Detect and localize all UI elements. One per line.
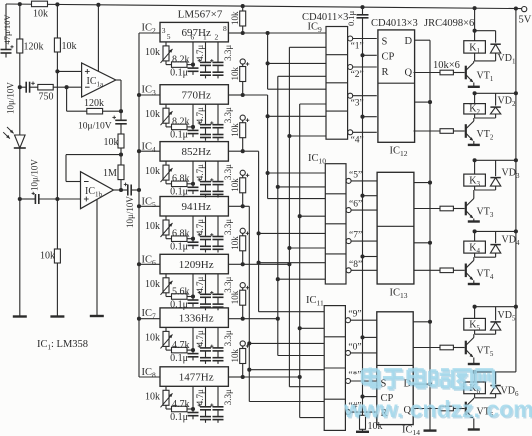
capacitor 3.3u pin2 IC5 — [217, 216, 219, 237]
wire output of IC2 — [228, 32, 242, 34]
wire to feedback node B — [120, 148, 122, 155]
svg-text:3.3μ: 3.3μ — [223, 330, 233, 346]
wire gate 1 output — [353, 38, 377, 40]
svg-text:6.8k: 6.8k — [172, 174, 190, 185]
wire output of IC3 — [228, 94, 242, 96]
resistor 10k base VT3 — [414, 208, 441, 210]
wire pot to 8.2k — [165, 123, 167, 127]
wire output chain down — [120, 111, 122, 120]
wire pin6 IC2 — [192, 42, 194, 65]
svg-text:6: 6 — [191, 33, 195, 42]
svg-text:5.6k: 5.6k — [172, 286, 190, 297]
wire 941 to gate0 top input — [249, 342, 324, 344]
capacitor 10u/10V coupling to IC1a — [20, 86, 26, 88]
resistor 6.8k IC4 — [172, 181, 188, 187]
resistor 8.2k IC3 — [172, 124, 188, 129]
resistor 10k base VT6 — [414, 408, 441, 410]
terminal + pullup IC3 — [240, 59, 245, 64]
wire pin6 IC6 — [192, 274, 194, 297]
wire 750 to IC1a inverting input — [53, 86, 81, 88]
node rail-K1 feed — [473, 6, 477, 10]
diode VD3 flyback — [490, 178, 500, 187]
node 1477 output junction — [243, 376, 300, 378]
svg-text:3.3μ: 3.3μ — [223, 219, 233, 235]
potentiometer 10k IC2 — [165, 42, 167, 46]
node K1 feed — [473, 29, 477, 33]
svg-text:750: 750 — [39, 92, 54, 103]
wire input to IC7 — [139, 318, 160, 320]
wire 770 to gate6 top input — [268, 198, 326, 200]
svg-text:4.7μ: 4.7μ — [195, 164, 205, 180]
gate output bubble 4 — [348, 130, 353, 135]
capacitor 47u/10V input electrolytic — [1, 49, 12, 51]
diode VD6 flyback — [490, 386, 500, 394]
resistor 10k pullup IC7 — [242, 288, 244, 290]
capacitor 4.7u pin1 IC8 — [205, 386, 207, 407]
svg-text:10μ/10V: 10μ/10V — [6, 82, 16, 114]
wire CP bus — [362, 22, 364, 415]
capacitor 3.3u pin2 IC4 — [217, 161, 219, 182]
gate output bubble # — [346, 410, 351, 415]
resistor 120k feedback IC1a — [87, 108, 103, 114]
node rail-pullup IC2 — [241, 4, 245, 8]
wire 10k to ground — [362, 429, 364, 431]
wire K3 5V feed — [475, 159, 516, 161]
op-amp IC1b LM358 second stage — [81, 172, 114, 209]
svg-text:1209Hz: 1209Hz — [179, 259, 214, 271]
quad NAND IC11 CD4011 — [324, 306, 345, 431]
ground VT6 — [468, 428, 480, 430]
diode VD1 flyback — [490, 44, 500, 53]
node D chain tap — [428, 241, 432, 245]
svg-text:47μ/10V: 47μ/10V — [2, 14, 12, 45]
svg-text:6.8k: 6.8k — [172, 229, 190, 240]
relay K1 — [474, 31, 476, 41]
node bus IC4 — [137, 149, 141, 153]
wire input to IC2 — [139, 32, 160, 34]
svg-text:VT5: VT5 — [477, 346, 494, 359]
node K5 feed — [473, 305, 477, 309]
wire K6 5V feed — [475, 371, 516, 373]
wire 770 to gate4 top input — [268, 115, 326, 117]
wire output of IC6 — [228, 263, 242, 265]
wire input to IC3 — [139, 94, 160, 96]
wire 1M to IC1b output node — [120, 180, 122, 190]
svg-text:CD4013×3: CD4013×3 — [371, 18, 418, 29]
wire bias node to IC1a+ — [56, 52, 58, 71]
svg-text:120k: 120k — [84, 98, 104, 109]
wire pot to 4.7k — [165, 405, 167, 409]
transistor VT1 NPN — [465, 66, 467, 80]
tone decoder IC5 LM567 941Hz — [160, 197, 228, 217]
svg-text:VT3: VT3 — [477, 207, 494, 220]
capacitor 0.1u CP bus top — [362, 7, 364, 14]
gate output bubble 7 — [346, 239, 351, 244]
node rail-right bus — [514, 6, 518, 10]
capacitor 0.1u timing IC6 — [192, 297, 194, 301]
svg-text:IC12: IC12 — [390, 146, 408, 159]
potentiometer 10k IC5 — [165, 216, 167, 220]
svg-text:4.7μ: 4.7μ — [195, 330, 205, 346]
wire gate 2 output — [353, 66, 377, 68]
svg-text:“1”: “1” — [351, 42, 364, 52]
wire pot to 4.7k — [165, 346, 167, 350]
svg-text:770Hz: 770Hz — [182, 89, 211, 101]
transistor VT6 NPN — [465, 402, 467, 416]
svg-text:Q: Q — [405, 68, 413, 79]
wire pot to 8.2k — [165, 61, 167, 65]
wire 852 trunk — [243, 150, 259, 152]
node timing IC2 — [191, 63, 195, 67]
potentiometer 10k IC7 — [165, 327, 167, 331]
node CP bus tap — [360, 395, 364, 399]
wire pot to 6.8k — [165, 180, 167, 184]
quad NAND IC9 CD4011 — [326, 27, 348, 140]
resistor 750 input — [30, 86, 38, 88]
node IC1a- feedback junction — [65, 85, 69, 89]
svg-text:“6”: “6” — [349, 200, 362, 210]
svg-text:120k: 120k — [24, 42, 44, 53]
wire 770 trunk — [243, 94, 268, 96]
svg-text:10k: 10k — [62, 41, 77, 52]
node K2 feed rail — [514, 91, 518, 95]
terminal 5V supply — [522, 7, 527, 12]
node D chain tap — [428, 181, 432, 185]
wire photodiode to signal row — [19, 148, 21, 199]
svg-text:S: S — [382, 37, 388, 48]
svg-text:8.2k: 8.2k — [172, 54, 190, 65]
node 1336 to gate8 — [276, 277, 280, 281]
diode VD2 flyback — [490, 107, 500, 114]
node 697 to gate2 — [266, 61, 270, 65]
dual flip-flop IC13 CD4013 — [377, 172, 414, 284]
wire 697Hz output to gate 1 input — [243, 32, 326, 34]
node B IC1b feedback — [119, 153, 123, 157]
node CP bus tap — [360, 53, 364, 57]
wire VT6 emitter to ground — [473, 419, 475, 430]
resistor 4.7k IC8 — [172, 406, 188, 412]
svg-text:5: 5 — [167, 32, 171, 41]
svg-text:4.7μ: 4.7μ — [195, 45, 205, 61]
wire IC1b V- to ground — [96, 200, 98, 317]
wire output of IC5 — [228, 205, 242, 207]
wire input to IC8 — [139, 376, 160, 378]
tone decoder IC8 LM567 1477Hz — [160, 367, 228, 387]
capacitor 0.1u timing IC5 — [192, 239, 194, 243]
ground VT5 — [468, 363, 480, 365]
resistor 4.7k IC7 — [172, 347, 188, 353]
potentiometer 10k IC8 — [165, 386, 167, 390]
wire K4 bottom node — [474, 253, 476, 257]
capacitor 4.7u pin1 IC7 — [205, 327, 207, 348]
svg-text:CP: CP — [382, 52, 395, 63]
svg-text:“4”: “4” — [351, 135, 364, 145]
tone decoder IC2 LM567 697Hz — [160, 22, 228, 42]
dual flip-flop IC12 CD4013 — [378, 30, 415, 142]
wire gate # output — [351, 411, 377, 413]
wire 1209 to gate7 bottom input — [289, 247, 325, 249]
wire 1209 trunk — [288, 47, 290, 386]
wire IC1a feedback loop — [66, 87, 68, 111]
capacitor 4.7u pin1 IC5 — [205, 216, 207, 237]
wire photodiode line to ground — [19, 199, 21, 317]
transistor VT5 NPN — [465, 341, 467, 355]
wire VT2 emitter to ground — [473, 141, 475, 145]
wire 1477 to gate-hash bottom input — [300, 417, 325, 419]
wire pin6 IC4 — [192, 161, 194, 184]
wire IC1a V+ to rail — [97, 5, 99, 71]
wire gate * output — [351, 380, 377, 382]
wire 852 to gate7 top input — [259, 232, 326, 234]
wire bias node down — [56, 71, 58, 199]
wire K2 bottom node — [474, 114, 476, 118]
wire 1209 to gate-star bottom input — [289, 386, 324, 388]
wire K4 5V feed — [475, 230, 516, 232]
wire gate 3 output — [353, 95, 377, 97]
node 1209 output junction — [243, 263, 290, 265]
capacitor 4.7u pin1 IC2 — [205, 42, 207, 63]
gate output bubble 2 — [348, 65, 353, 70]
gate output bubble 5 — [346, 178, 351, 183]
capacitor 0.1u timing IC7 — [192, 350, 194, 354]
wire pot to 6.8k — [165, 235, 167, 239]
svg-text:10μ/10V: 10μ/10V — [78, 122, 112, 132]
svg-text:VT1: VT1 — [477, 71, 494, 84]
node K2 feed — [473, 91, 477, 95]
photodiode VD light receiver — [15, 135, 26, 148]
wire gate 6 output — [351, 209, 377, 211]
wire gate 0 output — [351, 352, 377, 354]
resistor 10k base VT1 — [414, 72, 441, 74]
resistor 5.6k IC6 — [172, 294, 188, 300]
wire LM567 input bus — [138, 33, 140, 377]
svg-text:VD2: VD2 — [498, 95, 516, 108]
wire 941 to gate-hash top input — [249, 401, 324, 403]
svg-text:10k: 10k — [145, 109, 160, 120]
node pullup IC6 — [241, 262, 245, 266]
svg-text:10k: 10k — [230, 290, 240, 304]
wire IC1a output — [116, 79, 121, 81]
transistor VT4 NPN — [465, 264, 467, 278]
wire input to IC5 — [139, 205, 160, 207]
svg-text:VD3: VD3 — [502, 167, 520, 180]
wire pin6 IC8 — [192, 386, 194, 409]
wire 1336 to gate5 bottom input — [278, 186, 326, 188]
node timing IC5 — [191, 237, 195, 241]
svg-text:VD5: VD5 — [498, 310, 516, 323]
svg-text:10μ/10V: 10μ/10V — [30, 159, 40, 191]
node 1209 to gate7 — [287, 246, 291, 250]
svg-text:IC9: IC9 — [308, 22, 323, 35]
svg-text:IC4: IC4 — [142, 142, 157, 155]
node CP bus tap — [360, 115, 364, 119]
wire 1336 to gate2 bottom input — [278, 75, 326, 77]
svg-text:4.7μ: 4.7μ — [195, 107, 205, 123]
wire right 5V bus — [515, 9, 517, 372]
ground VT4 — [468, 283, 480, 285]
wire 697 trunk — [267, 33, 269, 89]
ground D chain — [424, 429, 437, 431]
wire K6 bottom node — [474, 394, 476, 398]
capacitor 3.3u pin2 IC8 — [217, 386, 219, 407]
terminal + pullup IC8 — [240, 341, 245, 346]
wire VT3 emitter to ground — [473, 219, 475, 222]
svg-text:0.1μ: 0.1μ — [170, 242, 188, 253]
svg-text:“9”: “9” — [348, 310, 361, 320]
svg-text:1336Hz: 1336Hz — [179, 313, 214, 325]
wire gate 5 output — [351, 180, 377, 182]
wire 697 to gate2 top input — [268, 62, 326, 64]
svg-text:941Hz: 941Hz — [182, 201, 211, 213]
dual flip-flop IC14 CD4013 — [377, 312, 413, 425]
node 1336 to gate5 — [276, 185, 280, 189]
resistor 10k CP pulldown — [360, 415, 366, 429]
svg-text:10μ/10V: 10μ/10V — [125, 196, 135, 228]
wire D chain from IC12 — [415, 39, 430, 41]
gate output bubble 8 — [346, 268, 351, 273]
node K3 feed rail — [514, 158, 518, 162]
node IC1b output — [119, 188, 123, 192]
wire K5 bottom node — [474, 330, 476, 334]
wire input to IC6 — [139, 263, 160, 265]
svg-text:4.7k: 4.7k — [172, 399, 190, 410]
node A coupling tap — [18, 85, 22, 89]
wire coupling cap to LM567 input bus — [131, 189, 139, 191]
svg-text:8: 8 — [223, 24, 227, 33]
terminal + pullup IC4 — [240, 115, 245, 120]
svg-text:1: 1 — [203, 33, 207, 42]
node 1336 output junction — [243, 318, 278, 320]
wire node B loop to IC1b inverting input — [66, 154, 121, 156]
svg-text:10k: 10k — [230, 123, 240, 137]
wire 1477 to gate6 bottom input — [300, 215, 326, 217]
svg-text:“3”: “3” — [351, 99, 364, 109]
potentiometer 10k IC3 — [165, 104, 167, 108]
gate output bubble 6 — [346, 208, 351, 213]
svg-text:www. cndzz. com: www. cndzz. com — [343, 396, 532, 422]
ground VT3 — [468, 220, 480, 222]
watermark site logo — [364, 369, 495, 389]
svg-text:2: 2 — [215, 33, 219, 42]
svg-text:10k: 10k — [145, 391, 160, 402]
wire K1 feed from rail — [474, 8, 476, 31]
node K4 feed — [473, 229, 477, 233]
resistor 10k pullup IC5 — [242, 175, 244, 177]
svg-text:4.7μ: 4.7μ — [195, 277, 205, 293]
wire pin6 IC5 — [192, 216, 194, 239]
relay K2 — [474, 93, 476, 103]
wire K5 5V feed — [475, 306, 516, 308]
wire input to IC4 — [139, 150, 160, 152]
wire VT5 emitter to ground — [473, 358, 475, 365]
svg-text:3.3μ: 3.3μ — [223, 389, 233, 405]
svg-text:IC1: LM358: IC1: LM358 — [37, 339, 88, 352]
node bus-IC1b signal — [137, 188, 141, 192]
node CP bus tap — [360, 194, 364, 198]
svg-text:10k: 10k — [230, 236, 240, 250]
resistor 10k interstage — [118, 134, 124, 148]
node pullup IC2 — [241, 31, 245, 35]
resistor 10k pullup IC6 — [242, 233, 244, 235]
svg-text:0.1μ: 0.1μ — [170, 299, 188, 310]
svg-text:JRC4098×6: JRC4098×6 — [424, 18, 474, 29]
svg-text:10k×6: 10k×6 — [433, 60, 460, 71]
svg-text:VT2: VT2 — [477, 129, 494, 142]
ground bias line — [50, 315, 64, 317]
transistor VT2 NPN — [465, 124, 467, 138]
svg-text:“5”: “5” — [349, 170, 362, 180]
svg-text:10k: 10k — [230, 178, 240, 192]
svg-text:10k: 10k — [33, 9, 48, 20]
capacitor 3.3u pin2 IC3 — [217, 104, 219, 125]
tone decoder IC3 LM567 770Hz — [160, 85, 228, 105]
resistor 6.8k IC5 — [172, 236, 188, 242]
resistor 10k pullup IC3 — [242, 64, 244, 66]
terminal + pullup IC7 — [240, 283, 245, 288]
svg-text:IC10: IC10 — [308, 153, 326, 166]
node pullup IC8 — [241, 375, 245, 379]
node pullup IC3 — [241, 93, 245, 97]
tone decoder IC4 LM567 852Hz — [160, 142, 228, 162]
wire 120k to node A — [19, 53, 21, 87]
diode VD5 flyback — [490, 322, 500, 330]
wire 5V top supply rail — [6, 4, 522, 9]
ground CP pulldown — [356, 431, 369, 433]
wire output of IC4 — [228, 150, 242, 152]
node pullup IC5 — [241, 204, 245, 208]
svg-text:10k: 10k — [145, 279, 160, 290]
svg-text:“0”: “0” — [348, 342, 361, 352]
resistor 10k series in rail top-left — [32, 1, 48, 7]
potentiometer 10k IC6 — [165, 274, 167, 278]
resistor 10k base VT2 — [414, 130, 441, 132]
node feedback-output — [119, 109, 123, 113]
svg-text:3.3μ: 3.3μ — [223, 107, 233, 123]
relay K5 — [474, 307, 476, 319]
svg-text:“2”: “2” — [351, 70, 364, 80]
gate output bubble 1 — [348, 36, 353, 41]
node pullup IC4 — [241, 149, 245, 153]
capacitor 10u/10V interstage — [115, 119, 127, 121]
svg-text:10k: 10k — [145, 221, 160, 232]
relay K3 — [474, 160, 476, 174]
node bus IC7 — [137, 317, 141, 321]
svg-text:3: 3 — [162, 26, 166, 35]
wire 1209 to gate1 bottom input — [289, 46, 326, 48]
wire photodiode node to shunt cap — [20, 198, 36, 200]
wire left edge from rail — [5, 4, 7, 49]
wire to lower 10k — [56, 199, 58, 249]
wire 1336 trunk — [277, 76, 279, 355]
wire 1336 to gate8 bottom input — [278, 278, 326, 280]
svg-text:D: D — [405, 36, 413, 47]
svg-text:1M: 1M — [103, 168, 117, 179]
svg-text:3.3μ: 3.3μ — [223, 45, 233, 61]
capacitor 10u/10V signal shunt — [34, 194, 36, 204]
wire node B to 1M — [120, 155, 122, 165]
node CP bus tap — [360, 335, 364, 339]
node pullup IC7 — [241, 317, 245, 321]
gate output bubble 3 — [348, 93, 353, 98]
ground VT2 — [468, 144, 480, 146]
quad NAND IC10 CD4011 — [325, 164, 346, 284]
relay K6 — [474, 372, 476, 382]
svg-text:VD4: VD4 — [502, 234, 520, 247]
node bias IC1b+ — [55, 197, 59, 201]
wire 941 trunk — [243, 205, 250, 207]
wire node A down to photodiode — [19, 87, 21, 134]
wire 1336 to gate0 bottom input — [278, 355, 324, 357]
